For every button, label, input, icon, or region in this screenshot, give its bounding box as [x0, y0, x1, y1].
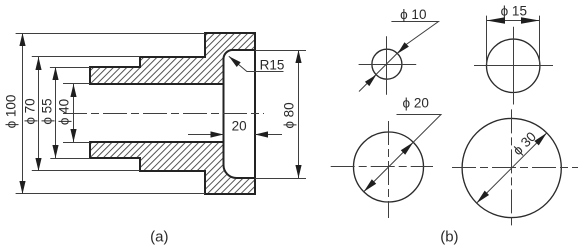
section lower half (hatched) — [90, 142, 255, 194]
circle 1 vertical centre mark — [386, 36, 388, 94]
dimension phi70 — [38, 57, 40, 171]
circle 4 vertical centreline — [511, 109, 513, 227]
phi10 opposite-side arrow — [365, 75, 376, 86]
extension line phi70 bottom — [32, 170, 140, 172]
circle 2 horizontal centre mark — [474, 65, 553, 67]
circle 3 (phi20) — [354, 132, 424, 202]
recess bottom wall edge across bore — [223, 84, 225, 142]
extension line phi100 top — [16, 33, 205, 35]
dimension phi100 — [22, 33, 24, 194]
dimension phi15 — [487, 20, 540, 22]
svg-text:20: 20 — [232, 118, 247, 133]
dimension phi40 — [73, 84, 75, 142]
right end face edge across recess — [254, 50, 256, 178]
circle 2 vertical centre mark — [513, 27, 515, 105]
svg-text:ϕ 80: ϕ 80 — [281, 102, 296, 128]
extension line phi80 top — [255, 50, 306, 52]
phi15 extension lines — [486, 16, 488, 64]
dimension phi80 — [298, 50, 300, 178]
dimension 20 — [188, 134, 224, 136]
dimension phi20 diagonal + shoulder — [364, 115, 441, 192]
dimension phi30 diagonal — [477, 133, 547, 203]
svg-text:ϕ 70: ϕ 70 — [23, 98, 38, 124]
circle 2 (phi15) — [487, 39, 540, 92]
extension line phi40 bottom — [63, 142, 90, 144]
svg-text:ϕ 10: ϕ 10 — [400, 7, 426, 22]
dimension phi10 through-line + leader + shoulder — [359, 22, 439, 92]
extension line phi55 top — [50, 67, 90, 69]
extension line phi80 bottom — [255, 178, 306, 180]
centreline axis of part — [63, 113, 264, 115]
dimension phi55 — [55, 67, 57, 158]
svg-text:ϕ 55: ϕ 55 — [40, 98, 55, 124]
svg-text:R15: R15 — [260, 57, 285, 72]
section upper half (hatched) — [90, 33, 255, 84]
extension line phi100 bottom — [16, 193, 205, 195]
extension line phi55 bottom — [50, 158, 90, 160]
svg-text:ϕ 15: ϕ 15 — [501, 3, 527, 18]
circle 4 horizontal centreline — [452, 167, 578, 169]
extension line phi40 top — [63, 83, 90, 85]
svg-text:ϕ 40: ϕ 40 — [57, 99, 72, 125]
circle 1 (phi10) — [372, 49, 402, 79]
svg-text:ϕ 30: ϕ 30 — [510, 129, 539, 158]
svg-text:(b): (b) — [440, 228, 458, 245]
circle 3 vertical centreline — [388, 121, 390, 218]
extension line phi70 top — [32, 56, 140, 58]
circle 1 horizontal centre mark — [359, 64, 417, 66]
leader R15 — [229, 56, 284, 71]
svg-text:ϕ 20: ϕ 20 — [403, 96, 429, 111]
svg-text:(a): (a) — [150, 228, 168, 245]
svg-text:ϕ 100: ϕ 100 — [4, 95, 19, 129]
circle 4 (phi30) — [462, 118, 561, 217]
circle 3 horizontal centreline — [331, 166, 433, 168]
